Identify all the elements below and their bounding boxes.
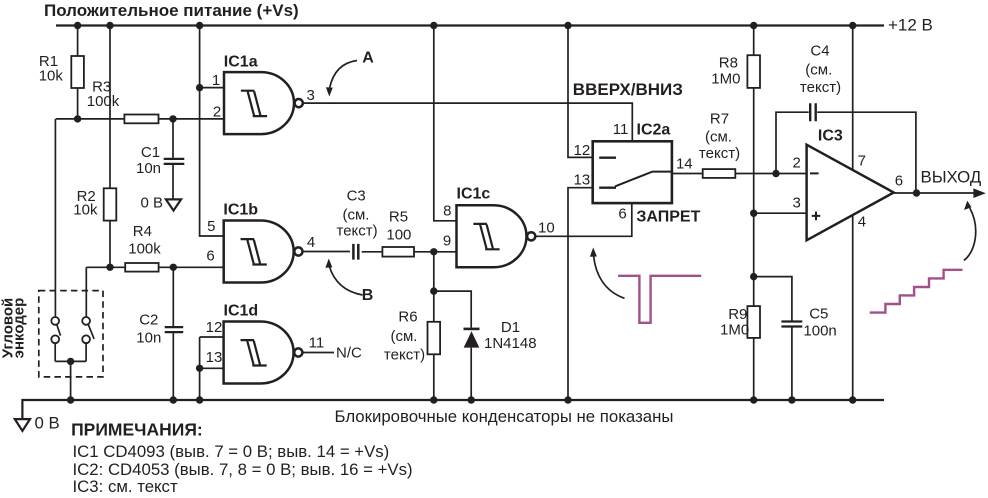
junction: R1/R3 xyxy=(74,115,81,122)
svg-text:6: 6 xyxy=(618,205,626,222)
svg-text:C3: C3 xyxy=(347,188,366,205)
capacitor C3 xyxy=(353,244,358,260)
junction: R2/R4 xyxy=(106,264,113,271)
svg-text:11: 11 xyxy=(613,121,629,138)
svg-text:2: 2 xyxy=(213,104,221,121)
svg-text:IC3: см. текст: IC3: см. текст xyxy=(73,477,178,496)
wire: R8 to pin3 node and R9 xyxy=(753,174,755,401)
ground symbol (C1) xyxy=(166,199,181,210)
wire: IC2a pin14 to R7 xyxy=(672,173,703,175)
svg-text:ЗАПРЕТ: ЗАПРЕТ xyxy=(636,208,700,225)
resistor R9 xyxy=(747,306,760,338)
resistor R4 xyxy=(125,263,158,272)
svg-text:IC3: IC3 xyxy=(818,127,843,144)
minus input symbol xyxy=(810,172,819,174)
svg-text:ПРИМЕЧАНИЯ:: ПРИМЕЧАНИЯ: xyxy=(71,420,203,440)
pulse waveform glyph xyxy=(618,276,701,323)
NAND gate IC1c xyxy=(457,205,536,267)
svg-text:100: 100 xyxy=(386,226,411,243)
junction: rail/IC3 pin4 xyxy=(849,396,856,403)
junction: rail/IC1d pins xyxy=(196,396,203,403)
svg-text:11: 11 xyxy=(309,335,325,352)
resistor R5 xyxy=(382,247,414,257)
wire: +Vs to IC1c pin8 xyxy=(434,26,457,221)
junction: R6/D1 branch xyxy=(430,287,437,294)
resistor R1 xyxy=(71,26,84,119)
staircase waveform glyph xyxy=(870,270,963,313)
svg-text:C4: C4 xyxy=(810,42,829,59)
svg-text:R8: R8 xyxy=(719,55,738,72)
curved arrow to staircase xyxy=(964,201,976,261)
svg-text:6: 6 xyxy=(895,172,903,189)
svg-text:10k: 10k xyxy=(39,68,64,85)
svg-text:IC1b: IC1b xyxy=(223,202,258,219)
svg-text:9: 9 xyxy=(443,233,451,250)
svg-text:1M0: 1M0 xyxy=(711,71,740,88)
analog switch IC2a xyxy=(593,141,672,203)
wire: 0V bottom rail xyxy=(22,400,884,419)
encoder switch S1a xyxy=(51,119,60,362)
svg-text:1M0: 1M0 xyxy=(720,321,749,338)
svg-text:8: 8 xyxy=(443,202,451,219)
svg-text:13: 13 xyxy=(206,349,223,366)
svg-text:10k: 10k xyxy=(73,202,98,219)
junction: rail/C2 xyxy=(170,396,177,403)
svg-text:IC1 CD4093 (выв. 7 = 0 В; выв.: IC1 CD4093 (выв. 7 = 0 В; выв. 14 = +Vs) xyxy=(73,442,390,461)
diode D1 xyxy=(464,329,480,400)
capacitor C4 feedback loop xyxy=(776,103,916,193)
junction: rail/IC1c pin8 xyxy=(430,22,437,29)
plus input symbol xyxy=(812,212,821,221)
svg-text:D1: D1 xyxy=(501,319,520,336)
resistor R8 xyxy=(747,26,760,174)
wire: IC1c out to IC2a pin6 xyxy=(536,203,631,236)
svg-text:100k: 100k xyxy=(87,93,120,110)
output arrowhead xyxy=(973,188,985,198)
svg-text:R6: R6 xyxy=(398,309,417,326)
svg-text:текст): текст) xyxy=(800,79,841,96)
svg-text:10n: 10n xyxy=(136,329,161,346)
resistor R2 xyxy=(104,26,117,268)
svg-text:(см.: (см. xyxy=(705,129,732,146)
wire: R7 to IC3 pin2 xyxy=(735,173,806,175)
svg-text:текст): текст) xyxy=(384,347,425,364)
NAND gate IC1b xyxy=(224,221,303,283)
svg-text:R5: R5 xyxy=(389,209,408,226)
junction: output/feedback xyxy=(913,189,920,196)
svg-text:6: 6 xyxy=(206,248,214,265)
svg-text:ВЫХОД: ВЫХОД xyxy=(921,168,982,187)
wire: IC2a pin13 to 0V xyxy=(568,188,593,400)
svg-text:14: 14 xyxy=(676,156,693,173)
svg-text:C2: C2 xyxy=(139,311,158,328)
wire: IC3 output xyxy=(894,192,974,194)
junction: rail/encoder xyxy=(67,396,74,403)
capacitor C2 xyxy=(165,267,184,400)
svg-text:R7: R7 xyxy=(710,111,729,128)
svg-text:ВВЕРХ/ВНИЗ: ВВЕРХ/ВНИЗ xyxy=(573,80,683,99)
svg-text:0 В: 0 В xyxy=(140,195,163,212)
wire: R5 to IC1c pin9 xyxy=(414,251,457,253)
junction: rail/R2 xyxy=(106,22,113,29)
capacitor C1 xyxy=(164,119,185,199)
arrow to IC2a pin6 (inhibit) xyxy=(590,248,625,299)
svg-text:текст): текст) xyxy=(699,145,740,162)
angular encoder dashed box xyxy=(39,291,103,377)
junction: C2 tap xyxy=(170,264,177,271)
label: Угловой энкодер (rotated) xyxy=(0,298,28,359)
wire: branch to D1 xyxy=(434,291,471,328)
junction: rail/IC2a pin13 xyxy=(564,396,571,403)
svg-text:5: 5 xyxy=(207,218,215,235)
svg-text:(см.: (см. xyxy=(391,328,418,345)
junction: rail/R9 xyxy=(750,396,757,403)
svg-text:(см.: (см. xyxy=(805,62,832,79)
svg-text:R4: R4 xyxy=(133,223,152,240)
junction: IC1d pin13 xyxy=(196,365,203,372)
svg-text:3: 3 xyxy=(307,87,315,104)
wire: IC1d pins 12/13 to 0V xyxy=(200,337,224,400)
svg-text:B: B xyxy=(362,287,374,304)
svg-text:энкодер: энкодер xyxy=(11,298,28,359)
svg-text:IC1a: IC1a xyxy=(224,53,258,70)
junction: rail/IC2a pin12 xyxy=(564,22,571,29)
svg-text:IC1c: IC1c xyxy=(457,186,491,203)
ground symbol (0 V rail) xyxy=(15,419,30,431)
svg-text:10: 10 xyxy=(538,219,555,236)
junction: rail/IC3 pin7 xyxy=(849,22,856,29)
svg-text:4: 4 xyxy=(858,213,866,230)
NAND gate IC1a xyxy=(224,72,303,134)
junction: rail/R8 xyxy=(750,22,757,29)
svg-text:12: 12 xyxy=(206,319,223,336)
wire: IC3 pin3 xyxy=(754,212,807,214)
svg-text:4: 4 xyxy=(307,234,315,251)
svg-text:100k: 100k xyxy=(128,240,161,257)
wire: R4 node line xyxy=(86,266,223,268)
junction: rail/R1 xyxy=(74,22,81,29)
svg-text:10n: 10n xyxy=(136,160,161,177)
svg-text:13: 13 xyxy=(574,172,591,189)
junction: R5/IC1c pin9/R6 xyxy=(430,248,437,255)
svg-text:2: 2 xyxy=(793,155,801,172)
svg-text:C1: C1 xyxy=(141,144,160,161)
junction: pin2/C4 node xyxy=(772,170,779,177)
capacitor C5 xyxy=(754,277,803,400)
resistor R3 xyxy=(124,115,158,124)
junction: rail/R6 xyxy=(430,396,437,403)
svg-text:C5: C5 xyxy=(809,306,828,323)
junction: rail/IC1 inputs xyxy=(196,22,203,29)
wire: +Vs branch to IC1a pin1 / IC1b pin5 xyxy=(200,26,224,237)
svg-text:7: 7 xyxy=(858,153,866,170)
arrow to node A xyxy=(326,61,357,97)
svg-text:1: 1 xyxy=(212,72,220,89)
junction: IC1a pin1 xyxy=(196,84,203,91)
wire: C3 to R5 xyxy=(362,251,383,253)
wire: IC1b out to C3 xyxy=(304,251,350,253)
junction: encoder common xyxy=(67,358,74,365)
resistor R6 xyxy=(428,322,441,355)
svg-text:IC2a: IC2a xyxy=(637,122,671,139)
resistor R7 xyxy=(703,169,736,178)
arrow to node B xyxy=(325,259,362,296)
junction: rail/D1 xyxy=(468,396,475,403)
svg-text:+12 В: +12 В xyxy=(888,16,933,35)
svg-text:A: A xyxy=(362,50,374,67)
svg-text:100n: 100n xyxy=(803,323,836,340)
svg-text:Блокировочные конденсаторы не: Блокировочные конденсаторы не показаны xyxy=(335,407,674,426)
wire: IC1c node down to R6 xyxy=(433,252,435,400)
svg-text:(см.: (см. xyxy=(343,206,370,223)
op-amp IC3 xyxy=(807,145,894,241)
encoder switch S1b xyxy=(82,267,94,361)
svg-text:N/C: N/C xyxy=(336,344,362,361)
svg-text:текст): текст) xyxy=(337,222,378,239)
wire: IC1d output N/C xyxy=(304,352,335,354)
svg-text:0 В: 0 В xyxy=(35,414,60,433)
svg-text:12: 12 xyxy=(574,142,591,159)
wire: +Vs top rail xyxy=(56,24,884,26)
NAND gate IC1d xyxy=(224,322,303,384)
junction: C1 tap xyxy=(169,115,176,122)
svg-text:3: 3 xyxy=(793,195,801,212)
junction: R8/R9/IC3 pin3 xyxy=(750,210,757,217)
junction: rail/C5 xyxy=(788,396,795,403)
wire: R3 node line xyxy=(56,118,224,120)
svg-text:IC1d: IC1d xyxy=(224,303,259,320)
wire: encoder common to 0V xyxy=(55,361,86,400)
svg-text:Положительное питание (+Vs): Положительное питание (+Vs) xyxy=(44,1,299,20)
wire: +Vs to IC2a pin12 xyxy=(568,26,593,158)
wire: IC3 pins 7/4 vertical xyxy=(852,26,854,401)
junction: C5 tap xyxy=(750,273,757,280)
wire: node A (IC1a out to IC2a pin11) xyxy=(304,103,632,141)
svg-text:1N4148: 1N4148 xyxy=(484,335,537,352)
